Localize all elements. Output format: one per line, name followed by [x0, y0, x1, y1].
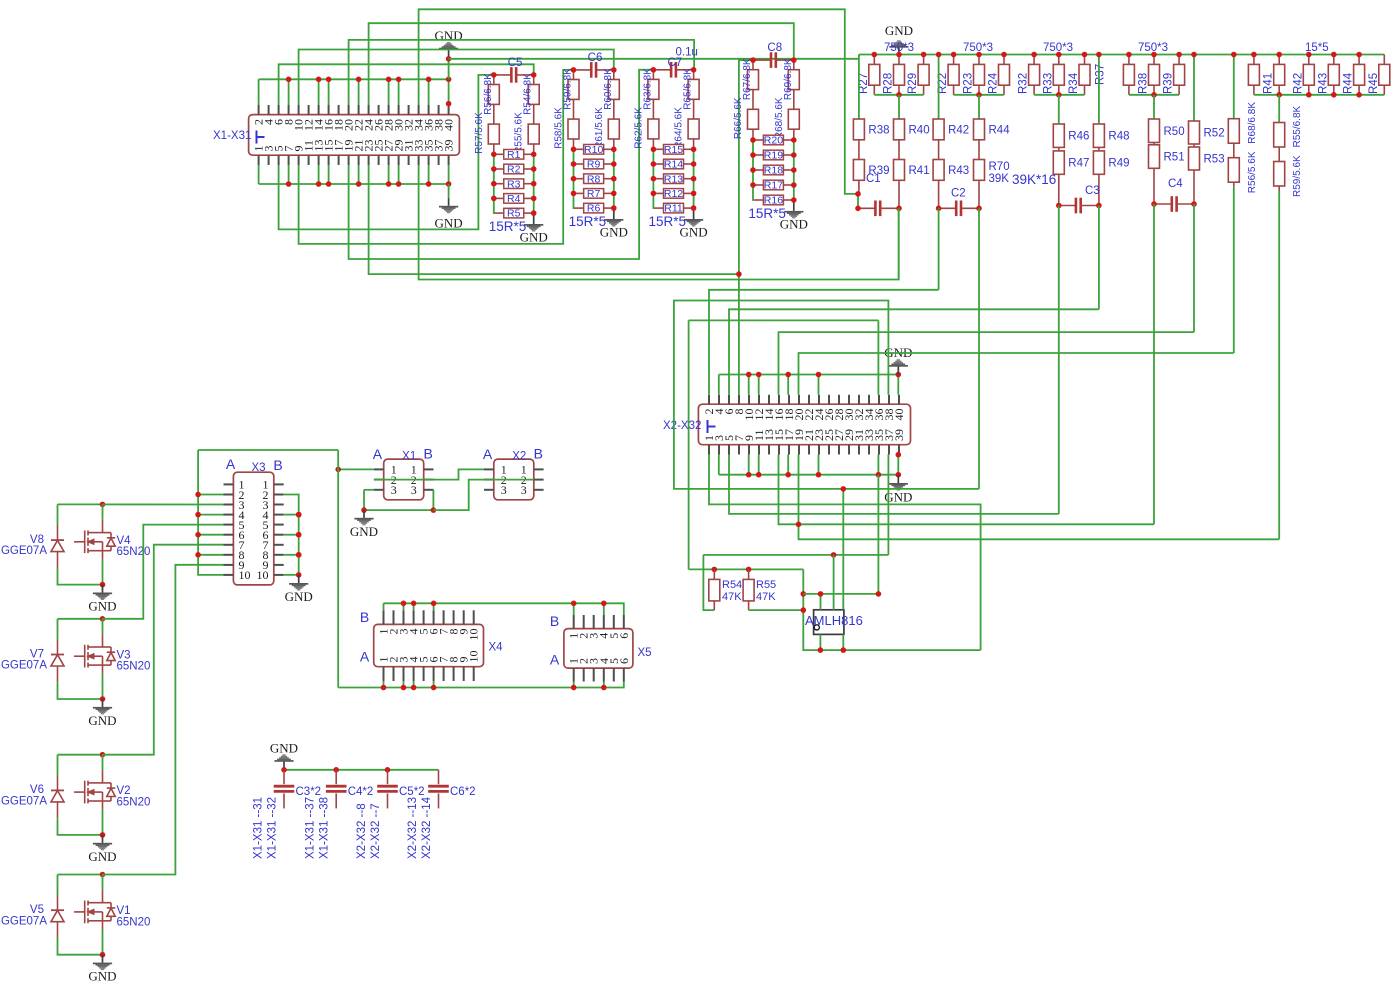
X3 pin stubs and numbers — [224, 483, 234, 485]
wire to diode — [57, 875, 59, 896]
wire bus to pin — [428, 79, 430, 105]
junction — [446, 77, 452, 83]
junction — [896, 52, 902, 58]
capacitor C3*2 — [274, 786, 295, 791]
wire X3 A9 to V1 drain — [103, 565, 224, 875]
wire trunk to MLH bottom rail — [803, 569, 980, 650]
svg-text:GND: GND — [88, 849, 116, 864]
wire R54 R55 top bus — [689, 568, 804, 570]
wire cap GND bus — [284, 769, 439, 771]
svg-text:R63/6.8K: R63/6.8K — [642, 68, 653, 110]
wire bus to R52 chain — [1193, 55, 1195, 122]
svg-text:39K*16: 39K*16 — [1012, 172, 1056, 187]
junction block bottom — [100, 582, 106, 588]
wire pin to bus — [433, 681, 435, 688]
resistor R8 — [574, 173, 614, 185]
junction — [531, 210, 537, 216]
svg-text:R18: R18 — [764, 165, 783, 177]
junction — [831, 552, 837, 558]
wire pin to bus — [573, 682, 575, 688]
resistor R51 — [1149, 145, 1160, 169]
resistor R39 — [853, 160, 864, 181]
capacitor C6*2 — [428, 786, 449, 791]
svg-text:GND: GND — [435, 216, 463, 231]
connector X4 body — [374, 624, 484, 666]
resistor R34 — [1079, 64, 1090, 85]
junction — [411, 601, 417, 607]
svg-text:65N20: 65N20 — [117, 797, 151, 809]
resistor R27 — [869, 64, 880, 85]
wire bus to pin — [328, 79, 330, 105]
svg-text:R51: R51 — [1164, 152, 1185, 164]
wire bus to pin — [318, 79, 320, 105]
wire network right rail — [793, 140, 795, 200]
junction — [401, 601, 407, 607]
svg-text:C3*2: C3*2 — [296, 786, 322, 798]
resistor R43 — [1328, 64, 1339, 85]
junction — [491, 181, 497, 187]
wire to drain — [102, 875, 104, 890]
svg-text:R15: R15 — [664, 144, 683, 156]
junction — [896, 452, 902, 458]
svg-text:V3: V3 — [117, 649, 131, 661]
junction — [841, 647, 847, 653]
junction — [531, 181, 537, 187]
svg-text:R32: R32 — [1018, 73, 1030, 94]
node network top C8 — [753, 59, 770, 61]
junction — [896, 92, 902, 98]
resistor R60/6.8K — [608, 80, 619, 100]
resistor R54 — [709, 579, 720, 601]
wire X4-X5 top bus — [384, 603, 624, 615]
svg-text:GND: GND — [88, 969, 116, 984]
resistor R9 — [574, 159, 614, 171]
node network top C5 — [494, 74, 510, 76]
junction block bottom — [100, 832, 106, 838]
svg-text:R57/5.6K: R57/5.6K — [474, 112, 485, 154]
junction network top — [491, 72, 497, 78]
resistor R47 — [1053, 151, 1064, 174]
wire diode to bottom — [58, 682, 103, 699]
svg-text:X4: X4 — [489, 642, 504, 654]
wire X2 pin20 to R56 chain — [799, 353, 1234, 395]
svg-text:R41: R41 — [909, 165, 930, 177]
wire bus to pin — [413, 603, 415, 610]
junction — [571, 685, 577, 691]
node network top C7 — [653, 69, 670, 71]
resistor R55/5.6K — [528, 124, 539, 144]
svg-text:A: A — [550, 652, 560, 668]
junction — [296, 532, 302, 538]
wire pin to bus — [428, 165, 430, 184]
junction — [1331, 92, 1337, 98]
wire X1 pin19 to network3 left — [349, 70, 654, 259]
junction — [491, 196, 497, 202]
svg-text:X2-X32: X2-X32 — [663, 420, 701, 432]
resistor R64/5.6K — [688, 119, 699, 139]
svg-text:R28: R28 — [883, 73, 895, 94]
svg-text:R42: R42 — [1292, 73, 1304, 94]
junction — [951, 52, 957, 58]
junction — [791, 197, 797, 203]
resistor R55/6.8K — [1274, 123, 1285, 148]
junction — [1306, 92, 1312, 98]
resistor R4 — [494, 193, 534, 205]
svg-text:GND: GND — [885, 23, 913, 38]
resistor R2 — [494, 164, 534, 176]
junction — [1276, 52, 1282, 58]
resistor R66/5.6K — [748, 109, 759, 129]
svg-text:GND: GND — [88, 599, 116, 614]
junction — [691, 147, 697, 153]
junction — [1096, 52, 1102, 58]
svg-text:C8: C8 — [767, 42, 782, 54]
resistor R33 — [1053, 64, 1064, 85]
svg-text:6: 6 — [617, 658, 631, 664]
junction — [1176, 52, 1182, 58]
junction — [1151, 92, 1157, 98]
junction — [855, 191, 861, 197]
wire bus to pin4 — [718, 375, 720, 395]
wire R56 chain down — [1233, 187, 1235, 353]
capacitor C3 — [1076, 198, 1081, 214]
wire to diode — [57, 504, 59, 525]
junction — [611, 176, 617, 182]
resistor R10 — [574, 144, 614, 156]
wire to X1 A1 — [338, 468, 374, 470]
svg-text:R60/6.8K: R60/6.8K — [603, 68, 614, 110]
wire pin to bus — [398, 165, 400, 184]
svg-text:6: 6 — [617, 633, 631, 639]
svg-text:R9: R9 — [587, 159, 601, 171]
svg-text:R65/6.8K: R65/6.8K — [683, 68, 694, 110]
svg-text:X1-X31: X1-X31 — [213, 130, 251, 142]
junction — [195, 512, 201, 518]
junction — [1031, 52, 1037, 58]
junction — [426, 77, 432, 83]
resistor R32 — [1029, 64, 1040, 85]
resistor R62/5.6K — [648, 119, 659, 139]
wire node to X2 pin8 — [738, 274, 740, 395]
junction — [976, 52, 982, 58]
svg-text:R54: R54 — [722, 579, 742, 591]
ground GND of filter caps — [274, 754, 293, 762]
svg-text:X5: X5 — [638, 647, 652, 659]
junction — [531, 196, 537, 202]
junction — [816, 472, 822, 478]
junction — [571, 601, 577, 607]
resistor R49 — [1093, 151, 1104, 174]
junction — [426, 181, 432, 187]
resistor R19 — [754, 150, 794, 162]
svg-text:R66/5.6K: R66/5.6K — [733, 97, 744, 139]
junction — [611, 161, 617, 167]
resistor R14 — [654, 159, 694, 171]
svg-text:R14: R14 — [664, 159, 683, 171]
wire 750-ohm GND bus — [859, 54, 1384, 56]
wire bus to pin — [403, 603, 405, 610]
svg-text:GGE07A: GGE07A — [1, 915, 47, 927]
resistor R13 — [654, 173, 694, 185]
resistor R17 — [754, 180, 794, 192]
resistor R50 — [1149, 119, 1160, 143]
junction network top — [791, 57, 797, 63]
wire pin3 to bus — [718, 455, 720, 475]
junction — [876, 591, 882, 597]
capacitor C5*2 — [387, 770, 389, 784]
junction — [1251, 52, 1257, 58]
svg-text:X3: X3 — [251, 462, 265, 474]
ground GND below X2 — [889, 475, 908, 491]
ground GND of X3 — [289, 575, 308, 591]
wire MLH pin to bottom rail — [819, 634, 821, 650]
ground of V2 — [93, 835, 112, 850]
junction — [281, 767, 287, 773]
svg-text:R20: R20 — [764, 135, 783, 147]
X2-X32 top pin stubs — [708, 395, 710, 404]
wire X1 pin33 to C1 right — [419, 165, 899, 280]
wire C2 right down to wrap line — [978, 208, 980, 489]
resistor R23 — [974, 64, 985, 85]
resistor R6 — [574, 203, 614, 215]
wire rail to pin — [284, 514, 299, 516]
ground of V4 — [93, 585, 112, 600]
svg-text:R40: R40 — [909, 124, 930, 136]
junction — [651, 191, 657, 197]
junction — [896, 206, 902, 212]
svg-text:V7: V7 — [30, 648, 44, 660]
junction network top — [571, 67, 577, 73]
junction — [746, 472, 752, 478]
wire bus to pin — [388, 79, 390, 105]
wire GND stem to bus — [448, 58, 450, 80]
junction — [651, 147, 657, 153]
svg-text:C6: C6 — [588, 52, 603, 64]
svg-text:R7: R7 — [587, 188, 601, 200]
wire pin to bus — [383, 681, 385, 688]
wire MLH gnd rail — [803, 593, 878, 595]
svg-text:A: A — [226, 456, 236, 472]
svg-text:R24: R24 — [988, 72, 1000, 94]
wire chain R39 to C1 — [857, 194, 859, 208]
junction — [691, 191, 697, 197]
junction — [921, 52, 927, 58]
resistor R28 — [894, 64, 905, 85]
junction — [691, 205, 697, 211]
svg-text:B: B — [534, 445, 543, 461]
junction — [326, 181, 332, 187]
svg-text:B: B — [273, 457, 282, 473]
junction — [976, 92, 982, 98]
wire left trunk to R54 bus — [688, 320, 690, 569]
resistor R56/5.6K — [1228, 158, 1239, 183]
resistor R38 — [853, 119, 864, 140]
svg-text:R4: R4 — [507, 193, 521, 205]
svg-text:R41: R41 — [1263, 73, 1275, 94]
connector X3 body — [233, 472, 273, 585]
wire bus to pin — [818, 375, 820, 395]
junction X1 pin23 / X2 pin8 — [736, 271, 742, 277]
junction block top — [100, 872, 106, 878]
wire X1 pin10 to network2 right — [299, 50, 614, 106]
resistor R54 — [713, 569, 715, 579]
svg-text:R17: R17 — [764, 180, 783, 192]
junction — [601, 685, 607, 691]
svg-text:R42: R42 — [948, 124, 969, 136]
wire X1 even-pin GND bus — [259, 78, 449, 80]
svg-text:X1: X1 — [402, 450, 416, 462]
junction — [296, 512, 302, 518]
junction — [296, 512, 302, 518]
svg-text:R13: R13 — [664, 173, 683, 185]
svg-text:R50: R50 — [1164, 126, 1185, 138]
wire GND rail to resistor bus — [449, 58, 859, 60]
junction — [756, 372, 762, 378]
resistor R63/6.8K — [648, 79, 659, 99]
ground of network C8 — [784, 211, 803, 219]
wire X1 B2 to X2 A1 — [433, 469, 484, 479]
svg-text:C5*2: C5*2 — [399, 786, 425, 798]
svg-text:39K: 39K — [989, 173, 1010, 185]
wire X1-A1 riser — [337, 450, 339, 688]
junction — [296, 532, 302, 538]
svg-text:X1-X31 --37: X1-X31 --37 — [305, 797, 317, 859]
wire bus to pin — [448, 79, 450, 105]
wire R54 bottom wrap — [703, 555, 714, 610]
svg-text:R45: R45 — [1368, 73, 1380, 94]
svg-text:C2: C2 — [951, 188, 966, 200]
wire R59 chain down — [1278, 191, 1280, 540]
wire X1 B3 down — [432, 490, 434, 510]
capacitor C6*2 — [438, 770, 440, 784]
wire bus to pin — [288, 79, 290, 105]
wire bus to pin — [258, 79, 260, 105]
capacitor C2 — [956, 201, 961, 217]
svg-text:X2: X2 — [512, 450, 526, 462]
junction — [791, 182, 797, 188]
wire pin to bus — [258, 165, 260, 184]
wire X1 pin34 to C1 left — [419, 9, 858, 194]
resistor R22 — [948, 64, 959, 85]
resistor R44 — [974, 119, 985, 140]
resistor R55 — [743, 579, 754, 601]
node network top C6 — [574, 69, 591, 71]
junction network top — [651, 67, 657, 73]
junction — [195, 532, 201, 538]
svg-text:R67/6.8K: R67/6.8K — [742, 58, 753, 100]
junction — [750, 137, 756, 143]
junction — [326, 77, 332, 83]
wire X2 pin5 to C3 left — [729, 455, 1059, 514]
X2-X32 bottom pin stubs — [708, 445, 710, 455]
resistor R15 — [654, 144, 694, 156]
junction — [396, 181, 402, 187]
junction — [936, 52, 942, 58]
svg-text:C5: C5 — [508, 57, 523, 69]
wire source to bottom — [102, 930, 104, 955]
svg-text:R48: R48 — [1108, 131, 1129, 143]
svg-text:C6*2: C6*2 — [450, 786, 476, 798]
ground GND top of X1 — [439, 42, 458, 50]
svg-text:R44: R44 — [1343, 72, 1355, 94]
ground GND above X2 — [889, 359, 908, 367]
wire diode to bottom — [58, 818, 103, 835]
wire pin to bus — [403, 681, 405, 688]
junction network top — [691, 67, 697, 73]
svg-text:GND: GND — [88, 713, 116, 728]
svg-text:R16: R16 — [764, 195, 783, 207]
junction block bottom — [100, 696, 106, 702]
wire group bottom link — [874, 94, 923, 96]
svg-text:65N20: 65N20 — [117, 916, 151, 928]
polarity mark — [257, 131, 265, 144]
resistor R — [1248, 64, 1259, 85]
wire to drain — [102, 755, 104, 770]
wire pin to bus — [358, 165, 360, 184]
svg-text:C1: C1 — [866, 173, 881, 185]
resistor R45 — [1379, 64, 1390, 85]
svg-text:R34: R34 — [1068, 72, 1080, 94]
wire group bottom link — [1034, 94, 1084, 96]
resistor R3 — [494, 178, 534, 190]
connector X2-X32 body — [698, 404, 910, 445]
svg-text:65N20: 65N20 — [117, 546, 151, 558]
wire block top — [58, 874, 103, 876]
junction — [1056, 52, 1062, 58]
junction — [1231, 52, 1237, 58]
svg-text:X1-X31 --31: X1-X31 --31 — [253, 797, 265, 859]
resistor R53 — [1189, 147, 1200, 170]
junction — [611, 191, 617, 197]
junction — [1151, 201, 1157, 207]
junction — [1331, 52, 1337, 58]
svg-text:R55: R55 — [756, 579, 776, 591]
junction — [335, 467, 341, 473]
junction — [401, 685, 407, 691]
resistor R70 — [974, 160, 985, 181]
junction block top — [100, 616, 106, 622]
svg-text:GND: GND — [435, 28, 463, 43]
junction — [876, 472, 882, 478]
svg-text:R58/5.6K: R58/5.6K — [554, 107, 565, 149]
wire to diode — [57, 619, 59, 640]
wire bus to ground — [448, 184, 450, 199]
junction — [491, 152, 497, 158]
svg-text:R69/6.8K: R69/6.8K — [783, 58, 794, 100]
wire pin to bus — [318, 165, 320, 184]
connector X5 body — [564, 629, 633, 669]
svg-text:R68/5.6K: R68/5.6K — [774, 97, 785, 139]
wire MLH pin to top rail — [833, 555, 835, 610]
wire X4-X5 bottom bus — [338, 682, 624, 688]
junction network top — [750, 57, 756, 63]
svg-text:R59/6.8K: R59/6.8K — [563, 68, 574, 110]
junction — [651, 176, 657, 182]
resistor R20 — [754, 135, 794, 147]
wire group bottom link — [1129, 94, 1179, 96]
capacitor C4*2 — [326, 786, 347, 791]
wire C4 right down — [1193, 204, 1195, 332]
svg-text:B: B — [360, 609, 369, 625]
ground of network C5 — [524, 224, 543, 232]
wire to drain — [102, 504, 104, 519]
svg-text:C7: C7 — [668, 57, 683, 69]
junction — [936, 206, 942, 212]
junction — [791, 137, 797, 143]
resistor R11 — [654, 203, 694, 215]
junction — [531, 152, 537, 158]
wire X2 odd GND bus — [719, 474, 899, 476]
